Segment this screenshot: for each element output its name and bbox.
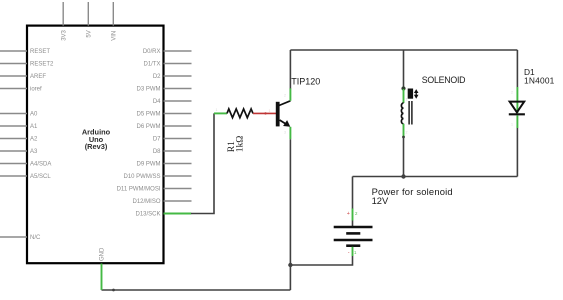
svg-text:1: 1 [269,109,271,113]
svg-text:D5 PWM: D5 PWM [137,112,161,118]
svg-text:RESET: RESET [30,49,50,55]
svg-text:2: 2 [406,131,408,135]
node bendpoint [112,289,115,292]
svg-text:-: - [348,250,350,256]
wire battery positive drop [352,177,354,210]
pin ioref [0,87,42,93]
svg-text:ioref: ioref [30,87,42,93]
pin D7 [153,137,192,143]
pin RESET [0,49,50,55]
svg-text:D8: D8 [153,149,161,155]
svg-text:RESET2: RESET2 [30,62,54,68]
svg-text:D11 PWM/MOSI: D11 PWM/MOSI [117,187,161,193]
node solenoid/rail junction [401,174,405,178]
wire red base wire [253,112,276,114]
svg-text:5V: 5V [87,30,93,37]
battery BT1 [334,186,453,256]
wire collector up [289,50,291,88]
wire diode bottom [516,128,518,177]
pin A3 [0,149,38,155]
node emitter/battery junction [288,263,292,267]
wire solenoid drop [403,50,405,88]
pin 3V3 [61,2,67,41]
pin D13/SCK [135,212,191,218]
svg-text:1kΩ: 1kΩ [235,136,246,153]
pin D10 PWM/SS [123,174,191,180]
svg-text:1: 1 [216,108,218,112]
op-amp U1 Arduino Uno body [27,26,164,264]
pin D8 [153,149,192,155]
pin N/C [0,235,41,241]
svg-text:A4/SDA: A4/SDA [30,162,51,168]
diode D1 1N4001 [509,67,555,128]
svg-text:D2: D2 [153,74,161,80]
svg-text:A5/SCL: A5/SCL [30,174,51,180]
svg-text:D7: D7 [153,137,161,143]
svg-text:D0/RX: D0/RX [143,49,161,55]
svg-text:A2: A2 [30,137,38,143]
pin micro-labels diode [511,91,513,127]
resistor R1 left leg green [214,112,227,114]
wire D13/SCK leg green [164,213,192,215]
pin D1/TX [143,62,191,68]
svg-text:TIP120: TIP120 [291,77,320,87]
pin micro-labels solenoid [406,98,408,135]
wire D13 to resistor [191,113,214,213]
svg-text:2: 2 [284,94,286,98]
svg-text:GND: GND [100,247,106,261]
pin D4 [153,99,192,105]
pin D0/RX [143,49,192,55]
svg-text:A3: A3 [30,149,38,155]
wire bottom rail [353,176,518,178]
pin D5 PWM [137,112,192,118]
pin VIN [112,2,118,41]
svg-text:D13/SCK: D13/SCK [135,212,160,218]
pin D3 PWM [137,87,192,93]
pin A2 [0,137,38,143]
svg-text:D4: D4 [153,99,161,105]
wire solenoid bottom [403,137,405,177]
svg-text:1N4001: 1N4001 [524,76,555,86]
svg-text:(Rev3): (Rev3) [85,142,108,151]
svg-text:12V: 12V [372,195,389,206]
pin A4/SDA [0,162,51,168]
pin A1 [0,124,38,130]
svg-text:A1: A1 [30,124,38,130]
pin 5V [87,2,93,38]
pin GND [100,247,106,261]
pin D9 PWM [137,162,192,168]
svg-text:D3 PWM: D3 PWM [137,87,161,93]
svg-text:AREF: AREF [30,74,46,80]
svg-text:D6 PWM: D6 PWM [137,124,161,130]
svg-text:3: 3 [284,131,286,135]
pin micro-labels resistor [216,108,252,112]
wire ground rail [102,289,291,291]
transistor Q1 TIP120 [276,77,321,140]
wire emitter down [289,139,291,290]
svg-text:D10 PWM/SS: D10 PWM/SS [123,174,160,180]
svg-text:N/C: N/C [30,235,41,241]
pin A5/SCL [0,174,51,180]
pin RESET2 [0,62,54,68]
wire diode drop [516,50,518,87]
svg-text:A0: A0 [30,112,38,118]
svg-text:D12/MISO: D12/MISO [132,199,160,205]
node solenoid top [401,86,405,90]
svg-text:1: 1 [406,98,408,102]
svg-text:VIN: VIN [112,31,118,41]
svg-text:+: + [347,211,350,217]
wire top rail [290,49,517,51]
pin D11 PWM/MOSI [117,187,192,193]
svg-text:2: 2 [511,91,513,95]
wire GND leg green [101,264,103,291]
svg-text:D9 PWM: D9 PWM [137,162,161,168]
pin D6 PWM [137,124,192,130]
svg-text:D1/TX: D1/TX [143,62,160,68]
pin D2 [153,74,192,80]
pin A0 [0,112,38,118]
pin micro-labels transistor [269,94,287,135]
pin AREF [0,74,46,80]
svg-text:SOLENOID: SOLENOID [422,75,465,85]
wire battery negative [290,256,352,265]
pin D12/MISO [132,199,191,205]
resistor R1 [226,109,253,152]
svg-text:3V3: 3V3 [61,29,67,40]
svg-text:1: 1 [511,123,513,127]
solenoid L1 [401,75,465,138]
svg-text:2: 2 [250,108,252,112]
